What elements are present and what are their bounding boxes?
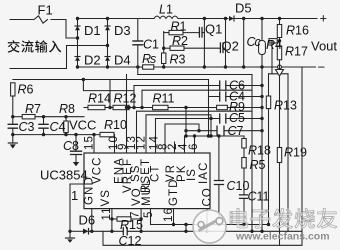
capacitor C1 (137, 19, 139, 42)
svg-text:R6: R6 (18, 83, 34, 97)
diode D6 (83, 229, 89, 235)
wire AC top line to fuse (10, 19, 33, 21)
svg-text:R8: R8 (59, 102, 75, 116)
diode D2 (75, 57, 80, 61)
svg-text:D2: D2 (84, 53, 101, 68)
svg-text:IAC: IAC (198, 162, 210, 184)
resistor R7 (22, 115, 35, 119)
node bridge top (76, 17, 79, 20)
svg-text:s: s (150, 52, 156, 66)
svg-text:VS: VS (100, 189, 112, 207)
svg-text:12: 12 (136, 135, 148, 150)
capacitor C12 bars (123, 228, 127, 235)
svg-text:F1: F1 (38, 3, 53, 18)
svg-text:R18: R18 (248, 144, 271, 158)
svg-text:C11: C11 (248, 190, 270, 204)
resistor R16 (279, 19, 281, 25)
wire fuse to bridge left midpoint (51, 20, 78, 39)
svg-text:www.elecfans.com: www.elecfans.com (235, 231, 330, 243)
node bridge bottom (76, 65, 79, 68)
resistor R19 column (279, 76, 281, 148)
svg-text:D4: D4 (114, 53, 131, 68)
svg-text:C7: C7 (228, 124, 244, 138)
wire pin1 gnd stub (91, 209, 93, 232)
resistor R18 (243, 136, 245, 139)
wire R6 feed row (13, 80, 209, 137)
diode D4 (105, 57, 110, 61)
wire pin14 bracket (155, 119, 157, 154)
wire CO stub (206, 209, 208, 232)
svg-text:Vout: Vout (311, 39, 337, 54)
wire C6 row (134, 85, 262, 87)
label AC input (8, 40, 62, 52)
svg-text:R16: R16 (286, 24, 309, 38)
transistor Q2 (219, 43, 221, 53)
svg-text:C1: C1 (143, 38, 159, 52)
node R3 bottom (162, 65, 165, 68)
wire pin16 stub (173, 209, 175, 225)
right bus 252 (251, 75, 253, 232)
svg-text:6: 6 (188, 143, 200, 151)
wire pin13 bracket (137, 111, 253, 153)
svg-text:CO: CO (202, 187, 214, 206)
wire R11 drop (185, 108, 187, 137)
node Q2 source (224, 65, 227, 68)
inductor L1 (154, 16, 178, 18)
svg-text:R13: R13 (274, 99, 297, 113)
svg-text:C10: C10 (227, 179, 250, 193)
resistor R11 (153, 105, 168, 109)
wire C4 row (209, 96, 263, 98)
svg-text:C8: C8 (63, 139, 79, 153)
wire AC bottom line (10, 46, 108, 69)
wire row A (138, 74, 252, 76)
wire top + rail (78, 18, 155, 20)
capacitor C3 (12, 117, 14, 125)
svg-text:+: + (320, 11, 328, 26)
capacitor C11 (240, 195, 248, 199)
watermark logo circle (193, 210, 226, 243)
resistor R4 (277, 40, 279, 42)
right bus 262 (261, 67, 263, 231)
resistor R15 (112, 218, 117, 220)
wire output column (243, 19, 245, 68)
resistor R2 (164, 47, 170, 49)
svg-text:C12: C12 (119, 234, 142, 248)
svg-text:GND: GND (84, 176, 96, 205)
svg-text:IS: IS (186, 168, 198, 181)
wire pin7 stub (140, 209, 142, 219)
resistor R6 (11, 83, 15, 96)
wire row 224 (151, 224, 269, 226)
svg-text:R1: R1 (171, 20, 187, 34)
svg-text:C4: C4 (50, 120, 66, 134)
resistor R3 (163, 32, 165, 54)
svg-text:R2: R2 (172, 34, 188, 48)
wire bottom - rail with Rs (78, 66, 143, 68)
svg-text:R5: R5 (250, 158, 266, 172)
svg-text:7: 7 (130, 211, 142, 219)
svg-text:GTD: GTD (168, 178, 180, 206)
resistor R14 (88, 105, 105, 109)
svg-text:16: 16 (163, 207, 175, 222)
node output + (242, 17, 245, 20)
wire upper branch row (142, 90, 252, 107)
node bridge right mid (106, 44, 109, 47)
svg-text:C3: C3 (19, 120, 35, 134)
svg-text:Q2: Q2 (222, 39, 239, 54)
wire R7 row (13, 116, 22, 118)
svg-text:R3: R3 (170, 53, 186, 67)
wire right drop (287, 74, 289, 232)
node Q2 drain (224, 17, 227, 20)
svg-text:−: − (318, 60, 326, 75)
capacitor C8 (75, 135, 77, 152)
svg-text:R17: R17 (285, 45, 308, 59)
svg-text:D5: D5 (235, 1, 252, 16)
capacitor Cc (261, 19, 263, 41)
diode D3 (105, 26, 110, 30)
wire pin6 stub (194, 136, 196, 153)
svg-text:1: 1 (71, 188, 78, 203)
svg-text:R4: R4 (266, 38, 282, 52)
resistor R9 (217, 105, 228, 109)
diode D1 (75, 26, 80, 30)
wire pin5 stub (150, 209, 152, 225)
svg-text:5: 5 (143, 211, 155, 219)
capacitor C12 loop (111, 219, 113, 231)
resistor Rs (143, 65, 154, 69)
resistor R13 (268, 74, 270, 96)
svg-text:R19: R19 (284, 146, 307, 160)
wire pin12 bracket (146, 115, 211, 153)
svg-text:VCC: VCC (69, 118, 96, 133)
resistor R10 (100, 132, 114, 136)
svg-text:R12: R12 (114, 92, 137, 106)
wire C5 row (156, 118, 263, 120)
svg-text:Q1: Q1 (205, 22, 222, 37)
node gnd stub (90, 230, 93, 233)
svg-text:R15: R15 (120, 218, 143, 232)
resistor R5 (242, 158, 246, 169)
svg-text:11: 11 (101, 206, 113, 220)
ground under C8 (75, 155, 77, 163)
svg-text:D3: D3 (114, 23, 131, 38)
node Q1 source (203, 65, 206, 68)
wire jog to R14 (83, 80, 134, 91)
resistor R1 (164, 32, 169, 34)
svg-text:c: c (255, 35, 262, 49)
resistor R17 (277, 46, 281, 60)
svg-text:R7: R7 (25, 102, 41, 116)
svg-text:C5: C5 (229, 111, 245, 125)
svg-text:D1: D1 (84, 23, 101, 38)
svg-text:R11: R11 (153, 92, 175, 106)
node out cap bottom (242, 65, 245, 68)
arrow down under minus rail (279, 67, 281, 70)
capacitor C10 (218, 136, 220, 181)
wire VCC row (13, 134, 100, 136)
node C1 bottom (136, 65, 139, 68)
wire row to R18 (185, 136, 245, 153)
wire pin1 to ground (70, 184, 84, 231)
IC U1 UC3854 box (84, 153, 210, 209)
ground under C3 (12, 135, 14, 143)
wire pin8 bracket (165, 124, 199, 153)
svg-text:MUL: MUL (141, 178, 153, 206)
svg-text:L1: L1 (159, 3, 173, 17)
wire C7 row (186, 130, 262, 132)
transistor Q1 (198, 28, 200, 38)
wire pin11 stub (111, 209, 113, 219)
svg-text:D6: D6 (79, 213, 96, 228)
watermark chinese text (230, 208, 337, 228)
wire bridge right branch (107, 19, 109, 68)
resistor R8 (65, 117, 67, 121)
wire ground row with D6 (70, 230, 83, 232)
svg-text:UC3854: UC3854 (40, 168, 88, 183)
wire T row under rail (269, 73, 289, 75)
wire pin9 column (126, 75, 128, 154)
svg-text:15: 15 (84, 135, 96, 150)
fuse F1 (34, 16, 48, 23)
ground arrow bottom left (69, 231, 71, 238)
resistor R12 (113, 105, 129, 109)
wire pin10 stub (114, 135, 116, 153)
wire outer loop right (103, 67, 302, 245)
wire IAC drop (109, 80, 111, 108)
diode D5 (229, 16, 234, 21)
wire R14 R12 R11 R9 row (84, 107, 88, 109)
svg-text:R10: R10 (104, 118, 127, 132)
wire pin2 stub (174, 142, 176, 153)
wire pin15 stub (93, 135, 95, 153)
wire bridge left branch (77, 19, 79, 68)
wire link 186 (185, 225, 187, 232)
svg-text:R14: R14 (88, 92, 111, 106)
capacitor C4 (43, 117, 45, 125)
node Q1 drain (203, 17, 206, 20)
node bridge left mid (76, 36, 79, 39)
